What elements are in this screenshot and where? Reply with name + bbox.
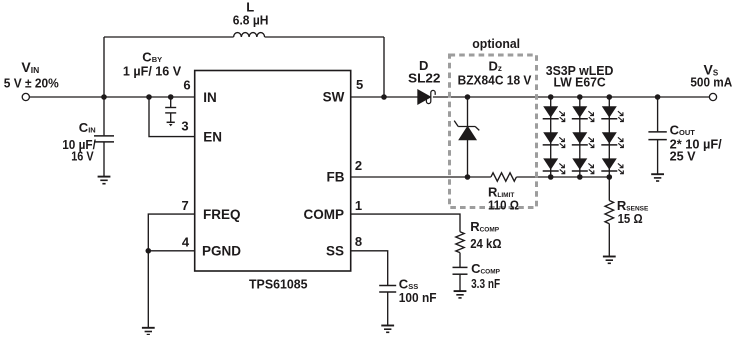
wire Cby drop (170, 97, 172, 107)
capacitor Cby (165, 108, 176, 113)
svg-text:CIN: CIN (79, 120, 96, 135)
capacitor Cin (94, 136, 114, 142)
wire right riser to SW node (383, 37, 385, 97)
wire Rsense drop (608, 177, 610, 201)
svg-text:24 kΩ: 24 kΩ (470, 236, 501, 251)
svg-text:CCOMP: CCOMP (471, 261, 501, 276)
svg-text:100 nF: 100 nF (399, 290, 437, 305)
wire FREQ branch (148, 214, 194, 251)
diode D SL22 (418, 90, 435, 104)
LED D7 (543, 158, 565, 173)
node LED2 bottom junction (577, 174, 583, 180)
wire zener node to Rlimit (468, 176, 491, 178)
node Cby junction (168, 94, 174, 100)
ground Cby (small) (167, 122, 175, 126)
node Cout junction (655, 94, 661, 100)
svg-text:EN: EN (203, 129, 222, 144)
svg-text:COMP: COMP (304, 207, 345, 222)
wire left riser to top loop (103, 37, 105, 97)
node input-riser junction (101, 94, 107, 100)
wire Rsense to ground (608, 224, 610, 256)
LED D3 (601, 106, 623, 121)
terminal Vs (709, 93, 716, 100)
ground Rsense (603, 257, 616, 264)
svg-text:6.8 µH: 6.8 µH (233, 12, 269, 27)
svg-text:CBY: CBY (142, 49, 162, 64)
wire zener cathode drop (467, 97, 469, 127)
node EN junction (146, 94, 152, 100)
ground Ccomp (454, 291, 467, 298)
wire LED column 2 (579, 97, 581, 177)
resistor Rcomp (456, 232, 464, 253)
zener diode Dz (454, 121, 479, 140)
svg-text:FB: FB (327, 170, 345, 185)
svg-text:4: 4 (182, 234, 190, 249)
svg-text:5 V ± 20%: 5 V ± 20% (4, 76, 59, 91)
svg-text:VIN: VIN (21, 59, 39, 75)
LED D5 (572, 132, 594, 147)
ground PGND (142, 328, 155, 335)
svg-text:110 Ω: 110 Ω (488, 198, 519, 213)
wire LED column 1 (550, 97, 552, 177)
svg-text:SW: SW (323, 89, 345, 104)
svg-text:COUT: COUT (670, 123, 696, 138)
resistor Rlimit (491, 173, 517, 181)
svg-text:25 V: 25 V (670, 149, 696, 164)
svg-text:1: 1 (355, 198, 362, 213)
wire Cout drop (657, 97, 659, 131)
svg-text:TPS61085: TPS61085 (249, 276, 308, 291)
LED D1 (543, 106, 565, 121)
svg-text:16 V: 16 V (71, 148, 94, 163)
wire main input rail (30, 96, 195, 98)
wire Cin to ground (103, 142, 105, 176)
wire diode cathode to Vs terminal (433, 96, 710, 98)
svg-text:3.3 nF: 3.3 nF (471, 276, 500, 291)
svg-text:Dz: Dz (489, 58, 502, 73)
dashed optional box (450, 55, 537, 208)
wire Css to ground (387, 292, 389, 325)
node LED3 top junction (607, 94, 613, 100)
wire Cout to ground (657, 140, 659, 174)
wire Rlimit to LED rail (516, 176, 609, 178)
svg-text:SS: SS (326, 244, 344, 259)
wire top left to inductor (104, 36, 234, 38)
svg-text:RCOMP: RCOMP (470, 219, 500, 234)
wire FB to zener node (351, 176, 468, 178)
LED D2 (572, 106, 594, 121)
svg-text:3: 3 (181, 119, 188, 134)
wire Rcomp to Ccomp (459, 253, 461, 267)
svg-text:optional: optional (472, 36, 520, 51)
IC U1 TPS61085 box (195, 71, 351, 272)
node LED3 bottom junction (607, 174, 613, 180)
ground Cin (98, 177, 111, 184)
inductor L (234, 33, 265, 37)
svg-text:2: 2 (355, 158, 362, 173)
node zener top junction (465, 94, 471, 100)
node LED2 top junction (577, 94, 583, 100)
svg-text:5: 5 (356, 77, 363, 92)
node LED1 bottom junction (548, 174, 554, 180)
wire PGND branch (148, 250, 194, 252)
ground Css (381, 326, 394, 333)
wire EN branch (149, 97, 195, 137)
svg-text:FREQ: FREQ (203, 207, 241, 222)
svg-text:LW E67C: LW E67C (554, 74, 607, 89)
terminal Vin (22, 93, 29, 100)
wire Ccomp to ground (459, 275, 461, 291)
node LED1 top junction (548, 94, 554, 100)
wire inductor to right riser (265, 36, 384, 38)
svg-text:7: 7 (181, 198, 188, 213)
LED D9 (601, 158, 623, 173)
LED D6 (601, 132, 623, 147)
node SW junction (381, 94, 387, 100)
wire LED column 3 (608, 97, 610, 177)
LED D4 (543, 132, 565, 147)
wire Cby to ground (170, 113, 172, 122)
svg-text:6: 6 (183, 77, 190, 92)
svg-text:PGND: PGND (202, 244, 241, 259)
capacitor Ccomp (453, 267, 468, 274)
svg-text:IN: IN (203, 90, 217, 105)
wire PGND node to ground (147, 251, 149, 327)
wire Cin branch (103, 97, 105, 135)
node zener bottom junction (465, 174, 471, 180)
svg-text:8: 8 (355, 234, 362, 249)
resistor Rsense (605, 201, 614, 224)
svg-text:1 µF/ 16 V: 1 µF/ 16 V (123, 63, 182, 78)
wire SW pin to diode anode (351, 96, 418, 98)
wire zener anode to FB rail (467, 140, 469, 177)
capacitor Css (379, 286, 396, 293)
wire COMP branch (351, 214, 460, 232)
node PGND junction (146, 248, 152, 254)
svg-text:SL22: SL22 (408, 71, 441, 86)
svg-text:BZX84C 18 V: BZX84C 18 V (458, 73, 532, 88)
capacitor Cout (648, 132, 666, 140)
svg-text:15 Ω: 15 Ω (618, 211, 643, 226)
svg-text:500 mA: 500 mA (690, 74, 732, 89)
LED D8 (572, 158, 594, 173)
ground Cout (651, 174, 664, 181)
wire SS branch (351, 251, 388, 285)
